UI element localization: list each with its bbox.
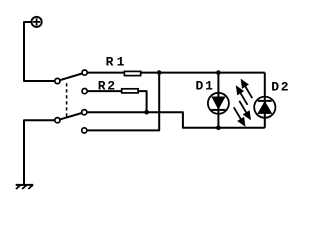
- resistor R1: [124, 71, 140, 75]
- node B junction dot: [144, 110, 149, 115]
- battery positive terminal BT+: [31, 17, 41, 27]
- wire node A down to throw 4: [87, 73, 159, 131]
- switch mechanical coupling (dashed): [66, 83, 68, 117]
- junction dot D1 bottom: [216, 126, 221, 131]
- wire D2 branch vertical: [264, 73, 266, 128]
- svg-text:D1: D1: [196, 79, 215, 94]
- svg-text:R1: R1: [106, 55, 128, 70]
- D1 light arrows (pointing down-right): [234, 101, 250, 125]
- junction dot D1 top: [216, 70, 221, 75]
- wire throw3 through node B to bottom rail: [87, 112, 265, 128]
- svg-text:D2: D2: [271, 80, 290, 95]
- LED D1: [208, 93, 229, 114]
- switch S1b lever: [60, 113, 82, 119]
- switch S1b pole contact: [55, 118, 60, 123]
- D2 light arrows (pointing up-left): [237, 81, 252, 105]
- switch S1a pole contact: [55, 78, 60, 83]
- switch S1a lever: [60, 74, 82, 81]
- node A junction dot: [157, 70, 162, 75]
- ground symbol: [16, 185, 34, 189]
- switch throw contact 3: [82, 110, 87, 115]
- LED D2 (reversed): [254, 97, 275, 118]
- wire from switch pole 2 to ground: [24, 120, 55, 184]
- wire from + terminal to switch pole 1: [24, 22, 55, 81]
- wire D1 branch vertical: [217, 73, 219, 128]
- wire throw1 to R1: [87, 72, 124, 74]
- switch throw contact 2 (to R2): [82, 89, 87, 94]
- wire R2 down to node B: [138, 91, 147, 112]
- resistor R2: [122, 89, 138, 93]
- switch throw contact 1 (to R1): [82, 70, 87, 75]
- wire throw2 to R2: [87, 90, 122, 92]
- wire R1 to node A and on to D2 (top rail): [141, 72, 265, 74]
- switch throw contact 4: [82, 128, 87, 133]
